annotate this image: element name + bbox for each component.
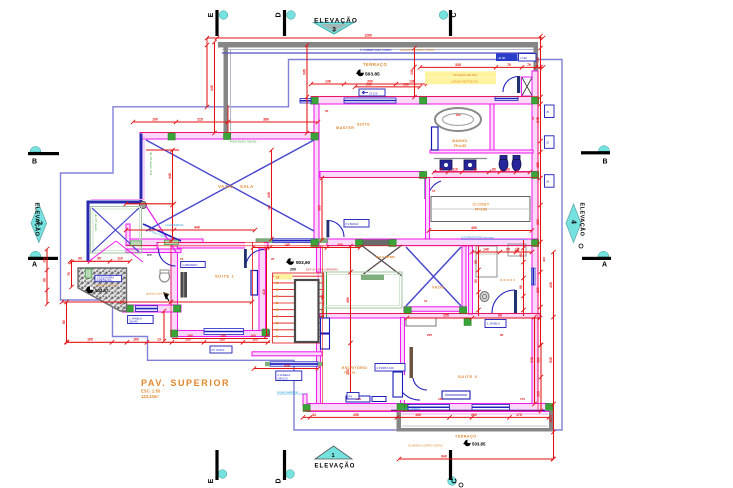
svg-text:65: 65 [506,247,510,251]
yellow strip 1 [425,71,496,77]
svg-text:90: 90 [43,278,47,282]
toilet master [499,157,508,171]
dim laundry y=204 [126,203,174,205]
door terrace-to-banho [503,77,519,93]
column P6 [311,133,318,140]
svg-text:30: 30 [531,116,535,120]
wall master left (x=314) [314,104,319,246]
lintel hatched over opening [362,240,389,246]
svg-text:34: 34 [312,413,316,417]
svg-text:E: E [208,478,215,483]
green border room escritorio [322,272,402,308]
svg-text:2 METALICA: 2 METALICA [97,278,112,282]
wall corridor top (y=239) left span [126,239,203,246]
svg-text:70: 70 [180,257,184,261]
wall vazio2 right (x=462) [462,246,466,308]
small circle mark bottom [459,483,463,487]
column P8 [356,240,363,247]
stairs level marker 503,60 [287,258,294,265]
dim terrace inner y87 [355,86,420,88]
section marker B left [30,147,41,153]
svg-text:200: 200 [471,413,477,417]
svg-text:1 COBERTURA VIDRO: 1 COBERTURA VIDRO [360,48,392,52]
level 503.85 top [357,69,364,76]
svg-text:503.57: 503.57 [95,288,109,293]
svg-text:1280: 1280 [364,33,372,37]
red hline vazio top [140,131,319,133]
tag hall window [485,320,506,328]
wall master/closet divider (y=172) [320,172,538,178]
level 503.85 bottom [464,440,470,446]
svg-text:FF=2.80: FF=2.80 [475,208,487,212]
bottom terrace inner pink line [402,413,548,415]
column P9 [389,240,396,247]
roof projection boundary (blue polyline) [61,60,563,431]
wall suite1 left (x=171) [171,246,178,337]
svg-text:90: 90 [474,279,478,283]
X cross vazio sala [146,140,314,231]
svg-text:CLOSET: CLOSET [473,203,490,207]
dim left wing 448 [172,150,174,240]
column P19 [397,404,404,411]
section marker D bottom [286,470,295,479]
dim bottom wall chain [303,416,549,418]
suite3 closet top [406,318,436,326]
section marker A left [30,251,41,257]
red wall line y=246 [126,245,538,247]
banho cabinet left [432,127,439,150]
svg-text:163: 163 [549,417,553,423]
wall top of vazio/sala (y=133) [140,133,319,140]
red wall line y=313 [320,312,540,314]
svg-text:95: 95 [97,257,101,261]
dim laundry 440 [126,229,255,231]
thin blue line under top parapet [222,52,538,54]
window suite3 bottom 1 [472,405,510,411]
dim suite1 right 410 [266,248,268,336]
yellow strip 2 [425,78,496,84]
bathtub [435,108,481,131]
wall corridor top (y=239) right span [327,239,538,246]
svg-text:80: 80 [498,313,502,317]
svg-text:ELEVAÇÃO: ELEVAÇÃO [314,16,358,25]
section marker E bottom [218,470,227,479]
gray parapet wall top [218,42,538,48]
dim left vertical 445 [214,42,216,133]
svg-text:200: 200 [337,243,343,247]
svg-text:p. brise metalico: p. brise metalico [401,407,420,411]
door gap suite1 left [159,242,176,249]
svg-text:alv. 15 revest.: alv. 15 revest. [94,214,98,231]
tag escritorio porta [347,393,359,400]
svg-text:3: 3 [332,27,336,34]
column P22 [464,319,471,326]
svg-text:165: 165 [87,338,93,342]
svg-text:175: 175 [516,413,522,417]
bidet master [512,157,521,171]
red line suite1 [170,246,172,337]
svg-text:SUITE 3: SUITE 3 [458,374,477,379]
tag bath1 window [128,316,154,324]
dim banho 130 [414,48,416,97]
svg-text:80: 80 [62,320,66,324]
svg-text:72: 72 [439,167,443,171]
stairs green rail right [321,272,323,343]
tag right margin 2 [545,136,555,149]
svg-text:448: 448 [320,295,324,300]
svg-text:ELEVAÇÃO: ELEVAÇÃO [34,203,41,237]
red hline suite1 top [157,241,268,243]
stairs central void [295,280,319,342]
svg-text:150: 150 [43,257,47,263]
svg-text:C: C [452,478,459,483]
svg-text:180: 180 [220,334,226,338]
door suite1 right [246,250,265,269]
wall bath3 left (x=468.5) [469,246,473,314]
dim left chain 70 [71,262,73,287]
svg-text:240: 240 [284,364,290,368]
green border room left [91,207,142,254]
red vline escritorio left [322,246,324,404]
window small master-left [300,99,311,104]
column P3 [311,97,318,104]
window bath1 bottom [136,306,158,312]
svg-text:D: D [276,478,283,483]
window escritorio left [270,362,318,366]
wall escritorio left upper (x=317) [317,246,321,272]
svg-text:165: 165 [187,334,193,338]
dim stairs 240 [254,368,318,370]
suite3 bench [442,391,470,399]
dim bath row y=302 [62,301,252,303]
dim vazio top 100/215/380 [133,121,318,123]
svg-text:200: 200 [290,268,296,272]
tag right margin 3 [545,175,555,188]
svg-text:255: 255 [427,333,432,337]
stair guard green strip left [256,239,273,243]
wall banho divider (x=490) [490,104,494,152]
svg-text:130: 130 [410,69,414,75]
window escritorio green ends [265,362,270,366]
magenta roof diagonals left [88,241,116,262]
svg-text:FF=2.50: FF=2.50 [344,371,356,375]
svg-text:PAV. SUPERIOR: PAV. SUPERIOR [141,378,230,388]
svg-text:D: D [276,12,283,17]
dim right vertical upper [540,36,542,141]
svg-text:410: 410 [262,289,266,295]
sink 2 [464,160,476,170]
svg-text:80: 80 [500,333,504,337]
svg-text:15: 15 [424,299,428,303]
wall stub bottom-left (x=303) [303,394,307,405]
svg-text:17: 17 [276,276,280,280]
svg-text:136: 136 [403,82,409,86]
svg-text:200: 200 [366,82,372,86]
wall banho vanity divider (y=152) [430,150,533,153]
svg-text:305: 305 [318,205,322,211]
svg-text:P4: P4 [349,394,353,398]
svg-text:90: 90 [78,257,82,261]
svg-text:1: 1 [331,453,334,459]
svg-text:446: 446 [267,205,271,210]
svg-text:5 DORMITORIO armario: 5 DORMITORIO armario [461,236,494,240]
svg-text:GUARDA CORPO VIDRO: GUARDA CORPO VIDRO [408,444,444,448]
wall vazio2 bottom (y=307) [404,307,466,312]
svg-text:LAVANDERIA: LAVANDERIA [165,223,184,227]
svg-text:SUITE 1: SUITE 1 [215,274,234,279]
stairs dim row [253,247,360,249]
column P1 [168,133,175,140]
tag sala blue [375,364,405,372]
svg-text:VAZIO: VAZIO [432,286,445,290]
svg-text:123,10m²: 123,10m² [141,394,160,399]
column P2 [224,133,231,140]
X cross dark room [361,245,402,276]
svg-text:J2 80: J2 80 [498,56,506,60]
door escritorio arc [413,378,427,390]
svg-text:A: A [32,262,37,269]
gray parapet bottom terrace [397,411,402,432]
wall top of suite row (y=97) [311,97,538,105]
suite1 wardrobe [181,272,188,298]
wall suite1 right (x=259) [259,248,266,335]
bath3 vanity [508,244,526,256]
door leaf master-closet [425,178,428,199]
column P11 [532,172,539,179]
wall escritorio top-left (y=352) [252,352,322,356]
svg-text:P1 80/210: P1 80/210 [346,222,359,226]
svg-text:60: 60 [506,167,510,171]
wall suite3 top (y=313.5) [320,314,540,319]
svg-text:4: 4 [570,220,577,224]
svg-text:215: 215 [197,117,203,121]
dim closet 490 [429,230,532,232]
svg-text:PASSEIO METRO: PASSEIO METRO [453,73,478,77]
column P4 [420,97,427,104]
svg-text:145: 145 [284,243,290,247]
dim terrace small [70,260,130,262]
stair guard window band [273,239,316,243]
column P13 [262,329,269,336]
svg-text:65: 65 [474,260,478,264]
svg-text:110: 110 [452,167,458,171]
svg-text:70: 70 [507,63,511,67]
section marker D top [287,11,296,20]
escritorio shelf [321,318,330,333]
svg-text:440: 440 [194,225,200,229]
window suite1 bottom [204,329,244,335]
svg-text:255: 255 [443,313,449,317]
svg-text:20: 20 [271,257,275,261]
gray parapet top-right vertical [534,42,539,72]
svg-text:503.85: 503.85 [365,72,380,78]
svg-text:503.85: 503.85 [472,442,486,447]
door gap master-closet [424,171,433,178]
svg-text:J5: J5 [546,141,549,145]
svg-text:guarda corpo h=1.10: guarda corpo h=1.10 [146,292,172,296]
red wall line y=97 [311,96,538,98]
svg-text:430: 430 [549,282,553,288]
svg-text:840: 840 [441,454,447,458]
red wall line x=538 [537,71,539,411]
dim right vertical outer [553,252,555,459]
dim master left vert [321,178,323,240]
stairs yellow patch [274,274,293,280]
wall building bottom (y=404.5) [307,404,549,412]
door master suite [328,221,345,238]
svg-text:x 120: x 120 [520,56,527,60]
svg-text:ESC. 1:50: ESC. 1:50 [141,389,161,394]
dim master-left vertical x307 [306,45,308,133]
svg-text:ESCRITÓRIO: ESCRITÓRIO [342,365,367,370]
wall escritorio left lower (x=317) [317,343,321,404]
window banho top [495,97,518,101]
column P15 [174,305,181,312]
svg-text:J3 120: J3 120 [369,92,378,96]
toilet suite1 [160,271,170,282]
gray circle column [139,201,146,208]
svg-text:B: B [32,159,37,166]
svg-text:VAZIO: VAZIO [218,184,234,189]
column P5 [532,97,539,104]
svg-text:LARGA PELTON 40: LARGA PELTON 40 [451,80,478,84]
svg-text:160: 160 [133,338,139,342]
column P12 [171,330,178,337]
svg-text:PISO ELEV. 503,60: PISO ELEV. 503,60 [230,140,257,144]
svg-text:FF=2.85: FF=2.85 [454,144,466,148]
svg-text:446: 446 [267,192,271,198]
elevation marker 4 (right) [566,204,581,243]
dim right lower x541 [540,345,542,411]
section marker C top [439,11,448,20]
svg-text:TERRAÇO: TERRAÇO [363,62,387,67]
svg-text:BANHO: BANHO [452,139,467,143]
dim suite1 bottom [172,338,268,340]
door gap suite1 right [245,242,264,249]
column P23 [420,172,427,179]
dim terrace 840 [399,458,553,460]
bath3 red chain [523,240,525,316]
dim suite3 right [534,317,536,404]
stairs outline [273,273,324,343]
wall suite1 bottom (y=331) [171,331,270,337]
door suite3 [396,376,420,400]
escritorio desk [393,372,403,397]
dim right vertical mid [540,141,542,345]
svg-text:165: 165 [415,413,421,417]
bath3 window right [532,268,536,285]
svg-text:90: 90 [519,285,523,289]
svg-text:impermeabilizar: impermeabilizar [277,390,298,394]
red wall line y=411 [303,410,540,412]
svg-text:70: 70 [527,63,531,67]
terrace level 503.57 [86,286,93,293]
stairs tread marks [276,275,278,277]
svg-text:ELEVAÇÃO: ELEVAÇÃO [579,203,586,237]
washer counter 1 [130,241,141,245]
svg-text:443: 443 [542,257,546,262]
bath3 shower [476,246,497,277]
sink 1 [440,160,452,170]
svg-text:GUARDA CORPO VIDRO: GUARDA CORPO VIDRO [400,48,436,52]
tag right margin 1 [545,105,555,118]
svg-text:35: 35 [325,109,329,113]
stairs treads [273,275,324,277]
svg-text:448: 448 [168,173,172,179]
svg-text:445: 445 [210,85,214,91]
dim escritorio vertical [350,246,352,400]
vanity counter [434,158,487,160]
svg-text:200/45: 200/45 [129,320,138,324]
window hall bottom 2 [408,405,450,411]
X cross elevator shaft [522,77,533,96]
red corridor vline [252,242,254,330]
bath3 toilet [480,292,489,302]
wall closet left vertical (x=426) [426,178,430,242]
section marker B right [599,146,610,152]
dim bath1 inner [163,311,165,341]
svg-text:70: 70 [67,272,71,276]
dim top small x207 [206,45,208,107]
dim vazio left red vert [227,105,229,132]
svg-text:1 JANELA: 1 JANELA [487,322,500,326]
svg-text:380: 380 [263,117,269,121]
column P21 [303,405,310,412]
svg-text:SUITE: SUITE [357,123,370,127]
door escritorio leaf [410,347,414,378]
svg-text:alv. 15 revest. 2cm: alv. 15 revest. 2cm [149,152,153,176]
svg-text:A: A [602,262,607,269]
stair guard green strip right [315,239,327,243]
svg-text:15: 15 [432,189,436,193]
svg-text:60: 60 [492,167,496,171]
wall suite3 left (x=400.5) [401,318,405,405]
svg-text:348: 348 [530,357,534,363]
dim vanity 72/110/72 [434,171,530,173]
svg-text:MASTER: MASTER [336,126,354,130]
svg-text:ELEVAÇÃO: ELEVAÇÃO [315,463,356,470]
svg-text:175: 175 [520,397,525,401]
dim top 1280 [207,37,543,39]
svg-text:J6: J6 [546,179,549,183]
hatched terrace polygon [78,268,127,311]
svg-text:2 PORTA 160: 2 PORTA 160 [377,366,394,370]
dim hall 255 [407,317,540,319]
dim bath3 inner [472,251,532,253]
svg-text:SALA INTIMA: SALA INTIMA [376,255,396,259]
svg-text:100: 100 [152,117,158,121]
column P16 [404,307,411,314]
X cross small room left [92,208,139,252]
window master suite top [344,98,396,103]
magenta diagonal roof line [146,206,176,252]
thick blue wall left wing [88,134,141,263]
svg-text:136: 136 [325,79,331,83]
tag corridor [210,346,232,353]
tag hall [344,220,369,228]
tag window J1 (top) [359,89,385,96]
svg-text:350: 350 [537,357,541,363]
svg-text:60: 60 [519,253,523,257]
dim left outer chain [46,249,48,304]
column P14 [126,305,133,312]
dim vazio vertical 446 [271,150,273,239]
svg-text:SALA: SALA [240,184,254,189]
gray parapet wall top-left vertical [224,44,229,133]
svg-text:J5: J5 [546,110,549,114]
wall bath1 left (x=122.5) [123,275,127,312]
suite1 cabinet right [251,271,258,296]
